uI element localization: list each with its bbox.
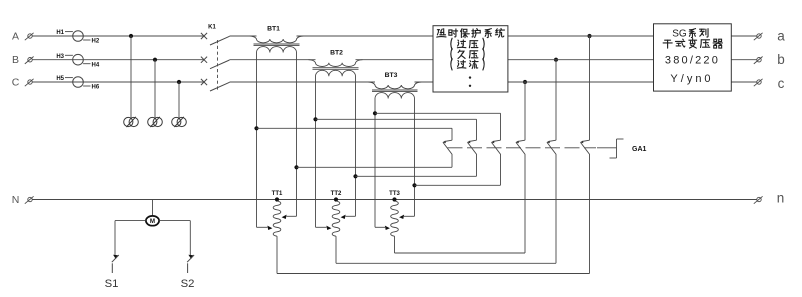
protection box line 欠压 [451,48,484,59]
wire BT1-left to contact QA1-1 top [257,127,453,129]
transformer BT1 [250,26,304,58]
svg-text:H6: H6 [92,85,100,91]
contact QA1-3 [491,140,501,154]
SG box line 干式变压器 [663,39,722,49]
wire BT1 secondary right down [296,58,298,216]
button S1 [112,255,119,273]
wire contact QA1-1 bottom to BT1-right [451,155,453,168]
svg-text:H5: H5 [56,76,64,82]
wire BT2 secondary left down [315,82,317,228]
switch K1 linkage (dashed) [217,40,219,90]
wire BT2 secondary right down [355,82,357,217]
svg-text:B: B [12,54,19,66]
wire contact QA1-2 bottom to BT2-right [476,155,478,177]
lamp EL3 with drop wire [172,82,187,127]
svg-text:Y/yn0: Y/yn0 [670,73,713,85]
protection box title 延时保护系统 [437,29,505,38]
motor M [146,216,159,226]
wire BT1 secondary left down [256,58,258,227]
node BT1-right to contact junction [294,165,298,169]
svg-text:S2: S2 [181,278,195,290]
node BT3-left to contact junction [373,111,377,115]
wire phase B output segment [731,59,757,61]
wire BT2-left to contact QA1-2 top [316,118,477,120]
node B to contact QA1-5 [554,58,558,62]
wire phase B mid segment [230,59,316,61]
contact QA1-1 [442,140,452,154]
wire BT3-left to contact QA1-3 top [375,112,501,114]
wire phase C right segment [508,81,654,83]
protection box ellipsis dots [469,76,471,78]
terminal b-out [754,57,763,64]
terminal C-in [25,79,34,86]
wire neutral N bus [33,199,757,201]
protection box line 过压 [451,38,484,49]
wire motor left arm to S1 [115,220,146,222]
wire C down to contact QA1-4 [524,82,526,140]
svg-text:BT2: BT2 [330,50,343,57]
transformer BT2 [309,50,363,82]
svg-text:S1: S1 [105,278,119,290]
wire contact QA1-3 bottom to BT3-right [500,155,502,186]
node BT3-right to contact junction [412,183,416,187]
protection box line 过流 [451,59,484,70]
lamp EL1 with drop wire [124,36,139,127]
actuator GA1 symbol [610,139,624,158]
lamp EL2 with drop wire [148,60,163,127]
node C to contact QA1-4 [523,80,527,84]
svg-text:TT2: TT2 [331,191,342,197]
terminal n-out [754,196,763,203]
node BT1-left to contact junction [254,126,258,130]
wire phase B left segment [33,59,205,61]
wire contact QA1-5 bottom down [555,155,557,264]
protection system box [433,26,508,92]
wire B down to contact QA1-5 [555,60,557,141]
svg-text:A: A [12,31,19,43]
button S2 [187,255,194,273]
svg-text:SG: SG [672,29,687,40]
wire phase A right segment [508,35,654,37]
terminal B-in [25,57,34,64]
linkage dashed QA1 [448,147,597,149]
svg-text:c: c [778,76,785,91]
wire TT1 bottom to contact QA1-6 [277,273,590,275]
svg-text:a: a [777,29,785,44]
svg-text:GA1: GA1 [632,146,647,153]
svg-text:TT3: TT3 [389,191,400,197]
terminal A-in [25,33,34,40]
wire N down to motor [152,200,154,216]
wire phase A left segment [33,35,205,37]
svg-text:TT1: TT1 [272,191,283,197]
wire phase C output segment [731,81,757,83]
svg-text:b: b [777,52,785,67]
contact QA1-5 [546,140,556,154]
wire A down to contact QA1-6 [589,36,591,140]
svg-text:C: C [12,77,20,89]
terminal a-out [754,33,763,40]
svg-text:H1: H1 [56,30,64,36]
autotransformer TT3 [375,191,415,253]
wire phase A output segment [731,35,757,37]
SG box title SG系列 [672,29,708,40]
terminal N-in [25,196,34,203]
wire phase C mid segment [230,81,376,83]
node A to contact QA1-6 [587,34,591,38]
contact QA1-6 [580,140,590,154]
svg-text:BT3: BT3 [385,72,398,79]
node junction A-lamp [129,34,133,38]
wire motor right arm to S2 [159,220,190,222]
fuse H3/H4 on phase B [56,54,100,68]
transformer BT3 [368,72,422,104]
svg-text:K1: K1 [208,25,216,31]
wire linkage to actuator GA1 [597,147,617,149]
svg-text:H4: H4 [92,62,100,68]
node junction B-lamp [153,58,157,62]
svg-text:H2: H2 [92,39,100,45]
svg-text:M: M [150,218,155,225]
node BT2-left to contact junction [313,117,317,121]
svg-text:380/220: 380/220 [665,54,720,66]
wire contact QA1-4 bottom down [524,155,526,254]
switch K1 pole B [201,57,230,69]
SG dry-type transformer box [654,24,732,91]
wire BT3 secondary left down [374,104,376,227]
contact QA1-2 [467,140,477,154]
wire phase C left segment [33,81,205,83]
svg-text:n: n [777,191,785,206]
svg-text:H3: H3 [56,54,64,60]
terminal c-out [754,79,763,86]
wire phase A mid segment [230,35,257,37]
switch K1 pole C [201,79,230,91]
wire TT2 bottom to contact QA1-5 [336,262,556,264]
autotransformer TT2 [316,191,356,263]
svg-text:N: N [12,194,20,206]
wire BT3 secondary right down [414,104,416,216]
contact QA1-4 [515,140,525,154]
node junction C-lamp [177,80,181,84]
node BT2-right to contact junction [353,174,357,178]
wire phase B right segment [508,59,654,61]
wire TT3 bottom to contact QA1-4 [395,252,526,254]
wire contact QA1-6 bottom down [589,155,591,274]
autotransformer TT1 [257,191,297,274]
fuse H5/H6 on phase C [56,76,100,90]
switch K1 pole A [201,33,230,45]
svg-text:BT1: BT1 [267,26,280,33]
fuse H1/H2 on phase A [56,30,100,44]
